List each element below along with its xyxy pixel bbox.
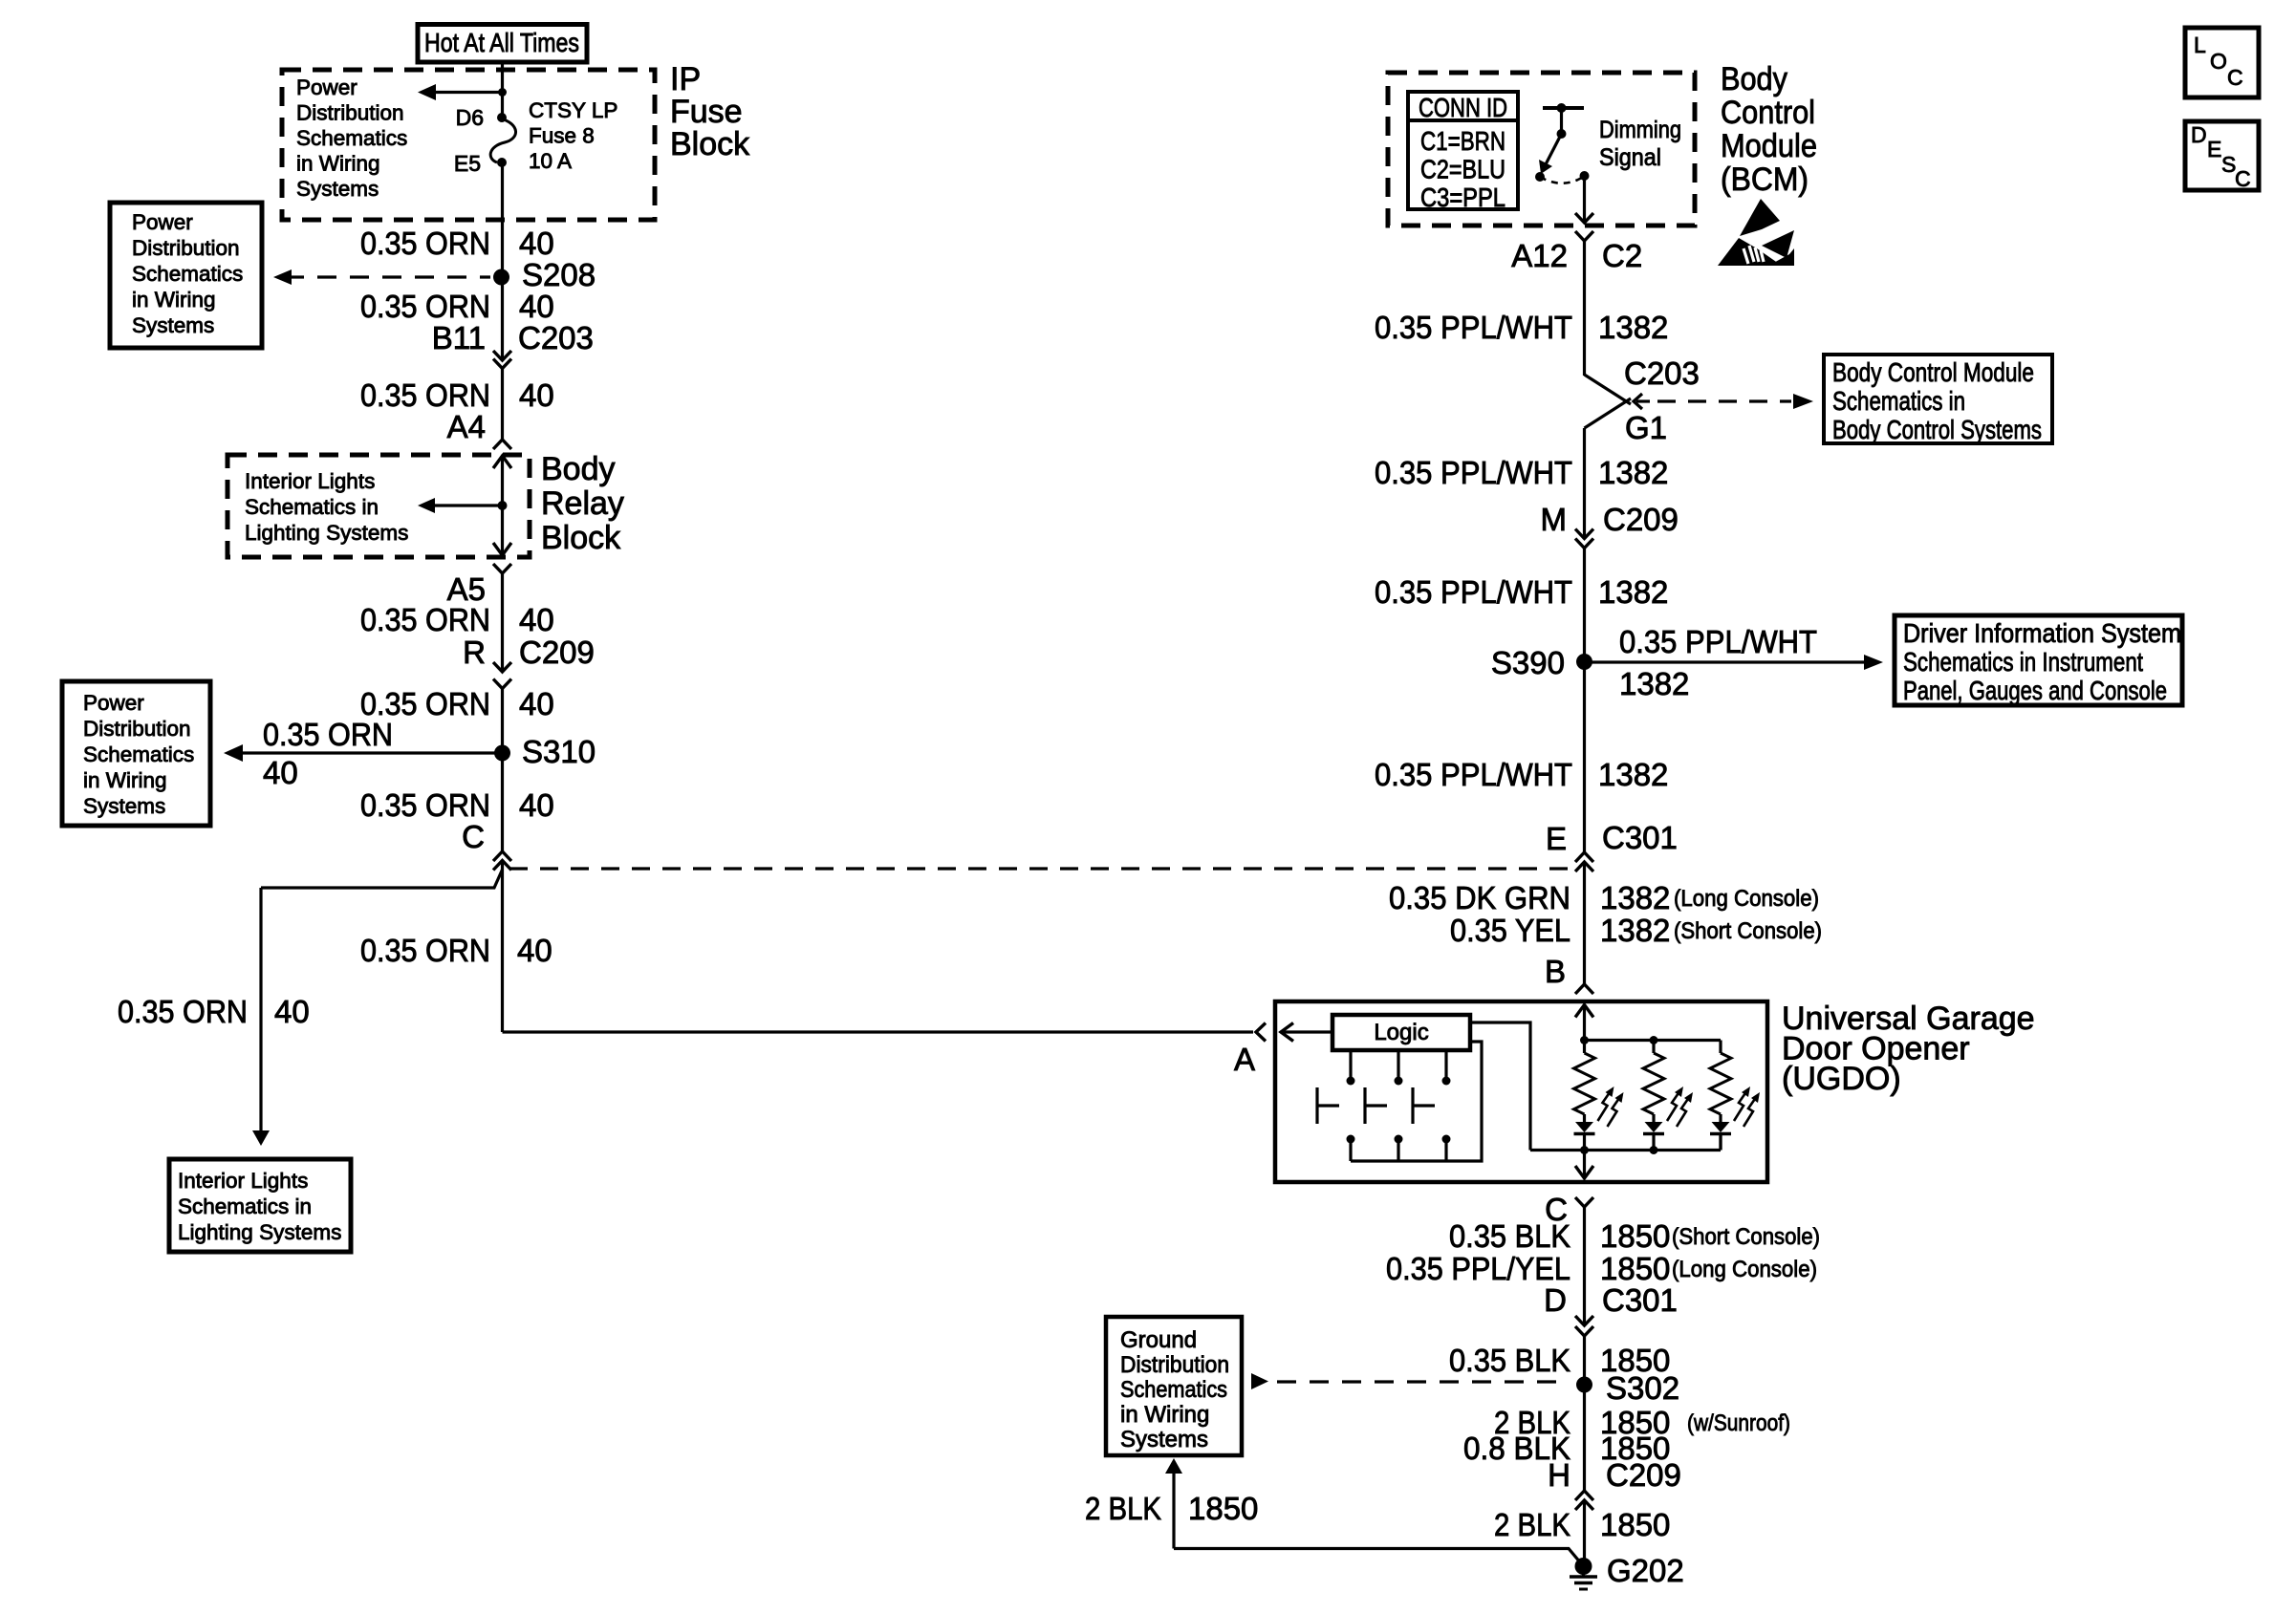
Body Relay Block dashed outline xyxy=(227,455,530,557)
svg-text:A4: A4 xyxy=(447,409,486,444)
svg-text:0.35 YEL: 0.35 YEL xyxy=(1450,913,1570,948)
svg-text:1850: 1850 xyxy=(1600,1507,1670,1542)
svg-text:0.35 PPL/WHT: 0.35 PPL/WHT xyxy=(1375,310,1572,345)
svg-text:C1=BRNC2=BLUC3=PPL: C1=BRNC2=BLUC3=PPL xyxy=(1420,126,1505,212)
svg-text:H: H xyxy=(1548,1457,1570,1493)
connector C203 symbol (male/female chevrons) xyxy=(493,351,511,360)
svg-text:C: C xyxy=(2235,166,2251,191)
reference box: Body Control Module Schematics in Body Control Systems xyxy=(1824,355,2052,443)
svg-text:C203: C203 xyxy=(1624,355,1700,391)
resistor R3 (LED string) xyxy=(1710,1053,1731,1114)
svg-text:0.35 PPL/YEL: 0.35 PPL/YEL xyxy=(1386,1251,1570,1286)
Logic output to switch bus xyxy=(1351,1042,1482,1161)
svg-text:C209: C209 xyxy=(519,635,595,670)
svg-text:E: E xyxy=(2207,137,2221,161)
connector C301 symbol (bottom) xyxy=(1575,1316,1593,1325)
wire through relay block with entry arrow xyxy=(493,456,511,468)
svg-text:0.35 ORN: 0.35 ORN xyxy=(360,787,490,823)
svg-text:40: 40 xyxy=(519,602,554,637)
wire rheostat to A12 xyxy=(1583,176,1586,223)
connector C209 symbol (bottom) xyxy=(1575,1491,1593,1500)
svg-text:40: 40 xyxy=(519,377,554,413)
connector C203 inline split xyxy=(1585,375,1632,404)
svg-text:40: 40 xyxy=(519,226,554,261)
LOC legend box xyxy=(2185,28,2259,97)
IP Fuse Block dashed outline xyxy=(282,70,655,220)
wire S208 to connector C203 xyxy=(501,277,504,360)
svg-text:0.35 PPL/WHT: 0.35 PPL/WHT xyxy=(1375,455,1572,490)
svg-text:0.35 BLK: 0.35 BLK xyxy=(1449,1218,1570,1254)
CONN ID table xyxy=(1408,92,1518,209)
connector C female half xyxy=(493,851,511,861)
connector C301 symbol (top) xyxy=(1575,852,1593,862)
svg-text:1850: 1850 xyxy=(1188,1491,1258,1526)
connector C2 symbol at BCM xyxy=(1575,213,1593,223)
svg-text:1382: 1382 xyxy=(1600,913,1670,948)
dashed reference line box to S302 xyxy=(1251,1373,1268,1389)
svg-text:S390: S390 xyxy=(1491,645,1565,680)
svg-text:G1: G1 xyxy=(1625,410,1667,445)
dashed reference arrow to Body Control Module Schematics box xyxy=(1657,399,1791,402)
svg-text:40: 40 xyxy=(263,755,298,790)
svg-text:C209: C209 xyxy=(1603,502,1679,537)
svg-text:0.35 PPL/WHT: 0.35 PPL/WHT xyxy=(1619,624,1817,659)
svg-text:0.35 ORN: 0.35 ORN xyxy=(360,289,490,324)
splice S390 xyxy=(1576,654,1592,670)
wire C209 to S310 xyxy=(501,689,504,852)
svg-text:40: 40 xyxy=(519,289,554,324)
wire S390 to C301 xyxy=(1583,661,1586,852)
LED top bus xyxy=(1585,1039,1722,1042)
svg-text:0.35 ORN: 0.35 ORN xyxy=(118,994,248,1029)
reference box: Power Distribution Schematics in Wiring Systems (S208) xyxy=(110,203,262,348)
svg-text:0.35 ORN: 0.35 ORN xyxy=(263,717,393,752)
svg-text:0.35 ORN: 0.35 ORN xyxy=(360,226,490,261)
Logic box xyxy=(1332,1015,1470,1050)
wire C209 to S390 xyxy=(1583,549,1586,662)
ground G202 xyxy=(1575,1558,1592,1575)
svg-text:C301: C301 xyxy=(1602,820,1678,855)
wire C301 to S302 xyxy=(1583,1336,1586,1385)
LED D1 xyxy=(1583,1114,1586,1122)
svg-text:C209: C209 xyxy=(1606,1457,1681,1493)
svg-text:(w/Sunroof): (w/Sunroof) xyxy=(1687,1410,1790,1436)
wire below C with branch to interior lights arrow xyxy=(501,861,504,1032)
branch wire to Ground Distribution box xyxy=(1165,1458,1182,1474)
exit arrow at relay block bottom xyxy=(493,543,511,555)
svg-text:1382: 1382 xyxy=(1598,757,1668,792)
svg-text:G202: G202 xyxy=(1607,1553,1684,1588)
svg-text:A12: A12 xyxy=(1511,238,1568,273)
svg-text:Driver Information SystemSchem: Driver Information SystemSchematics in I… xyxy=(1903,618,2181,705)
pin A entry arrow into Logic xyxy=(1281,1023,1293,1042)
svg-text:E5: E5 xyxy=(454,151,481,176)
svg-text:40: 40 xyxy=(519,686,554,721)
fuse CTSY LP Fuse 8 10A element xyxy=(490,118,515,162)
svg-text:(Short Console): (Short Console) xyxy=(1672,1224,1820,1250)
reference box: Hot At All Times xyxy=(418,25,587,63)
svg-text:B11: B11 xyxy=(432,320,486,355)
arrow to Interior Lights text xyxy=(429,504,503,506)
pin B entry arrow xyxy=(1575,1005,1593,1018)
svg-text:0.35 PPL/WHT: 0.35 PPL/WHT xyxy=(1375,574,1572,610)
svg-text:1382: 1382 xyxy=(1598,310,1668,345)
reference box: Interior Lights Schematics in Lighting Systems xyxy=(169,1159,351,1252)
fuse terminal dot D6 xyxy=(497,113,507,122)
arrow to Power Distribution text (inside fuse block) xyxy=(433,91,503,94)
svg-text:L: L xyxy=(2194,32,2206,57)
svg-text:0.35 DK GRN: 0.35 DK GRN xyxy=(1389,880,1570,915)
splice S208 xyxy=(493,269,509,286)
resistor R1 (LED string) xyxy=(1583,1041,1586,1054)
UGDO output wire to pin C xyxy=(1583,1151,1586,1179)
long dashed option line to C301 xyxy=(509,867,1573,870)
svg-text:E: E xyxy=(1546,821,1567,856)
connector C209 symbol (right) xyxy=(1575,529,1593,539)
svg-text:1850: 1850 xyxy=(1600,1218,1670,1254)
Logic output to LED bus xyxy=(1470,1022,1530,1151)
svg-text:CONN ID: CONN ID xyxy=(1419,93,1507,122)
wire from Hot At All Times box down to fuse xyxy=(501,62,504,118)
wire fuse E5 down to S208 xyxy=(501,162,504,277)
switch S1 in UGDO xyxy=(1349,1050,1352,1077)
connector A5 female half xyxy=(493,564,511,573)
fuse terminal dot E5 xyxy=(497,158,507,167)
svg-text:(Long Console): (Long Console) xyxy=(1674,886,1819,912)
svg-text:(Long Console): (Long Console) xyxy=(1672,1257,1817,1282)
Body Control Module dashed outline xyxy=(1388,73,1695,226)
svg-text:2 BLK: 2 BLK xyxy=(1494,1507,1570,1542)
svg-text:D6: D6 xyxy=(456,105,484,130)
branch wire down to Interior Lights box xyxy=(259,888,262,1132)
LED D1 light arrows xyxy=(1598,1090,1612,1121)
DESC legend box xyxy=(2185,121,2259,190)
svg-text:1850: 1850 xyxy=(1600,1251,1670,1286)
wire C301 to UGDO pin B xyxy=(1583,862,1586,984)
switch S3 in UGDO xyxy=(1444,1050,1447,1077)
svg-text:40: 40 xyxy=(517,933,552,968)
svg-text:C: C xyxy=(2227,65,2243,90)
svg-text:O: O xyxy=(2210,49,2227,74)
splice S302 xyxy=(1576,1377,1592,1393)
connector C male half with branch xyxy=(493,861,511,871)
svg-text:R: R xyxy=(463,635,486,670)
svg-text:0.35 PPL/WHT: 0.35 PPL/WHT xyxy=(1375,757,1572,792)
LED D3 light arrows xyxy=(1734,1090,1747,1121)
reference arrow from S310 to box xyxy=(235,751,503,754)
svg-text:S208: S208 xyxy=(522,257,596,292)
wire C209 to G202 xyxy=(1583,1500,1586,1566)
ESD symbol xyxy=(1740,199,1780,236)
svg-text:2 BLK: 2 BLK xyxy=(1085,1491,1161,1526)
svg-text:C: C xyxy=(462,819,485,854)
svg-text:C2: C2 xyxy=(1602,238,1642,273)
svg-text:0.35 ORN: 0.35 ORN xyxy=(360,377,490,413)
svg-text:C203: C203 xyxy=(518,320,594,355)
reference box: Driver Information System Schematics xyxy=(1895,615,2182,705)
svg-text:1382: 1382 xyxy=(1598,455,1668,490)
svg-text:Logic: Logic xyxy=(1374,1020,1428,1045)
wire S302 to C209 xyxy=(1583,1385,1586,1491)
svg-text:M: M xyxy=(1541,502,1568,537)
svg-text:40: 40 xyxy=(519,787,554,823)
dimming rheostat symbol xyxy=(1543,106,1584,110)
splice S310 xyxy=(494,745,510,762)
dashed reference arrow from S208 to box xyxy=(273,269,292,285)
svg-text:A: A xyxy=(1234,1042,1255,1077)
junction dot on feed wire xyxy=(498,88,507,97)
connector pin A female half xyxy=(1256,1023,1266,1042)
svg-text:1382: 1382 xyxy=(1600,880,1670,915)
svg-text:BodyRelayBlock: BodyRelayBlock xyxy=(541,451,624,556)
reference box: Ground Distribution Schematics in Wiring Systems xyxy=(1106,1317,1242,1455)
wire pin C to C301 xyxy=(1583,1207,1586,1325)
connector pin B female half xyxy=(1575,984,1593,994)
horizontal wire C to UGDO pin A xyxy=(503,1030,1254,1033)
svg-text:1382: 1382 xyxy=(1598,574,1668,610)
wire C203 to A4 xyxy=(501,369,504,441)
switch S2 in UGDO xyxy=(1397,1050,1399,1077)
svg-text:S302: S302 xyxy=(1606,1370,1679,1406)
LED bottom bus xyxy=(1530,1149,1721,1151)
wire A5 to C209 xyxy=(501,573,504,672)
svg-text:Hot At All Times: Hot At All Times xyxy=(424,28,579,57)
wire A12 to C203 split xyxy=(1583,241,1586,376)
LED D2 light arrows xyxy=(1667,1090,1680,1121)
svg-text:0.35 ORN: 0.35 ORN xyxy=(360,602,490,637)
svg-text:(Short Console): (Short Console) xyxy=(1674,918,1822,944)
svg-text:B: B xyxy=(1545,954,1566,989)
LED D2 xyxy=(1652,1114,1655,1122)
svg-text:C301: C301 xyxy=(1602,1282,1678,1318)
wire C203 to C209 xyxy=(1583,428,1586,539)
svg-text:D: D xyxy=(2191,122,2207,147)
svg-text:0.35 ORN: 0.35 ORN xyxy=(360,933,490,968)
junction dot in relay block xyxy=(498,501,508,510)
LED D3 xyxy=(1719,1114,1722,1122)
svg-text:40: 40 xyxy=(274,994,310,1029)
svg-text:0.35 BLK: 0.35 BLK xyxy=(1449,1343,1570,1378)
resistor R2 (LED string) xyxy=(1652,1041,1655,1054)
connector A4 female half xyxy=(493,440,511,449)
svg-text:D: D xyxy=(1544,1282,1567,1318)
reference arrow S390 to Driver Information box xyxy=(1585,660,1867,663)
svg-text:S310: S310 xyxy=(522,734,596,769)
reference box: Power Distribution Schematics in Wiring Systems (S310) xyxy=(62,681,210,826)
connector pin C female half xyxy=(1575,1197,1593,1207)
svg-text:1382: 1382 xyxy=(1619,666,1689,701)
Universal Garage Door Opener outline xyxy=(1275,1001,1767,1182)
connector C209 symbol xyxy=(493,662,511,672)
